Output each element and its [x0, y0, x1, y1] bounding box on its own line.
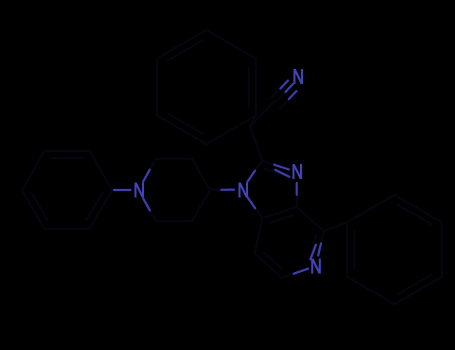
svg-text:N: N [292, 162, 304, 184]
piperidine ring [143, 159, 210, 221]
svg-text:N: N [238, 180, 250, 202]
benzene ring (right) [324, 195, 442, 304]
imidazole ring (N1,C2,N3,C3a,C7a) [248, 161, 297, 223]
benzene ring (top) [157, 30, 256, 144]
bond CH-C(nitrile) [250, 102, 274, 127]
svg-text:N: N [310, 256, 322, 278]
svg-text:N: N [134, 180, 146, 202]
bond piperidine C4 - imidazole N1 [210, 189, 234, 192]
bond N(piperidine)-phenyl [112, 189, 130, 191]
bond C2-CH(exocyclic) [250, 127, 262, 161]
pyridine ring (C3a,C4,N5,C6,C7,C7a) [255, 207, 324, 278]
svg-text:N: N [293, 67, 305, 89]
nitrile triple bond C#N [272, 81, 297, 109]
benzene ring (left) [22, 151, 112, 229]
